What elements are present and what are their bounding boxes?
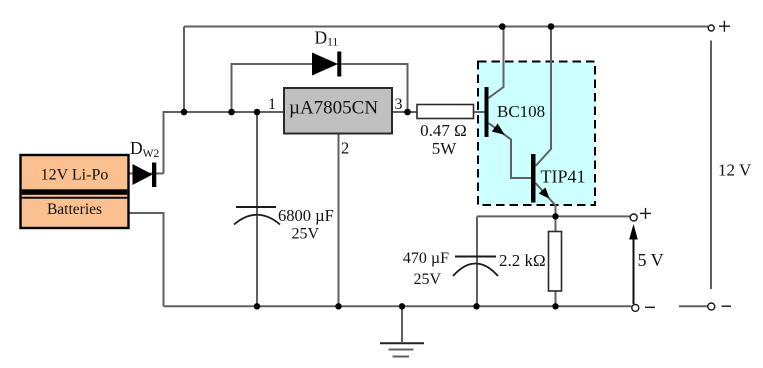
- svg-text:5W: 5W: [432, 139, 458, 158]
- svg-text:12 V: 12 V: [718, 161, 752, 180]
- svg-text:µA7805CN: µA7805CN: [289, 98, 378, 119]
- svg-text:25V: 25V: [292, 226, 320, 243]
- svg-text:BC108: BC108: [497, 102, 545, 121]
- svg-text:2.2 kΩ: 2.2 kΩ: [499, 251, 546, 270]
- svg-text:3: 3: [395, 96, 403, 113]
- svg-text:TIP41: TIP41: [541, 167, 586, 187]
- svg-text:6800 µF: 6800 µF: [278, 206, 334, 225]
- svg-text:0.47 Ω: 0.47 Ω: [420, 121, 467, 140]
- svg-text:25V: 25V: [414, 271, 442, 288]
- svg-text:Batteries: Batteries: [47, 201, 102, 218]
- svg-text:1: 1: [268, 96, 276, 113]
- svg-text:2: 2: [341, 139, 349, 158]
- svg-text:470 µF: 470 µF: [403, 250, 449, 267]
- svg-text:12V Li-Po: 12V Li-Po: [41, 167, 109, 184]
- svg-text:5 V: 5 V: [638, 250, 664, 270]
